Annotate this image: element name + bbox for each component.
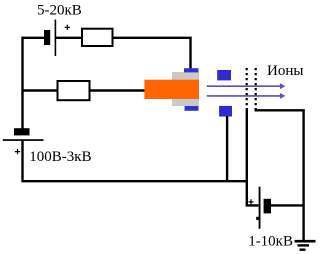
extraction electrode bottom plate — [219, 106, 232, 117]
battery B2 thick plate (negative) — [14, 128, 30, 135]
svg-text:1-10кВ: 1-10кВ — [248, 234, 293, 250]
grid G2 dotted line — [255, 68, 257, 109]
wire junction to resistor R2 — [22, 89, 59, 91]
anode blue cap bottom — [185, 106, 199, 111]
battery B3 thin plate (positive) — [259, 187, 261, 229]
battery B3 small tick — [256, 217, 258, 220]
svg-text:Ионы: Ионы — [267, 63, 303, 79]
wire resistor R1 to anode corner — [113, 38, 191, 69]
svg-text:100В-3кВ: 100В-3кВ — [29, 149, 91, 165]
wire battery B2 to bottom bus — [21, 141, 247, 181]
battery B1 thick plate (negative) — [44, 30, 50, 45]
anode blue cap top — [184, 68, 199, 72]
battery B3 plus sign — [248, 199, 253, 204]
battery B2 thin plate (positive) — [3, 139, 44, 141]
resistor R1 — [82, 29, 113, 46]
wire battery B1 to resistor R1 — [56, 37, 82, 39]
wire battery B3 to right vertical — [271, 204, 304, 206]
ion beam arrow lower — [207, 95, 281, 97]
battery B1 thin plate (positive) — [55, 20, 57, 57]
resistor R2 — [58, 81, 90, 100]
wire left vertical bus top — [21, 37, 23, 129]
anode gray holder block — [172, 72, 199, 106]
battery B2 plus sign — [15, 149, 20, 154]
wire resistor R2 to anode block — [90, 89, 145, 91]
ground symbol — [295, 240, 316, 243]
wire grid G2 to right vertical — [256, 109, 304, 242]
wire bottom electrode to bus — [226, 116, 228, 181]
wire grid G1 down to battery B3 plus — [247, 109, 259, 206]
svg-text:5-20кВ: 5-20кВ — [37, 3, 82, 19]
ion beam arrow upper — [207, 85, 281, 87]
wire battery B1 left to corner — [22, 37, 45, 39]
extraction electrode top plate — [217, 70, 231, 80]
battery B3 thick plate (negative) — [264, 199, 271, 214]
battery B1 plus sign — [65, 25, 70, 30]
grid G1 dotted line — [246, 68, 248, 109]
anode orange body — [144, 80, 199, 99]
